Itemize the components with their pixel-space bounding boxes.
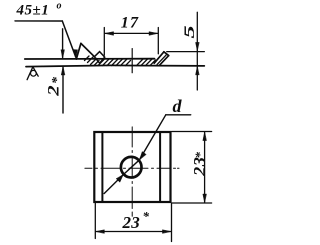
dim 2* text (rotated)	[45, 76, 65, 97]
dim 2*: lower arrowhead (up)	[61, 66, 65, 75]
dim 2*: upper arrow line	[62, 29, 64, 58]
label d underline	[166, 114, 191, 116]
svg-text:d: d	[173, 96, 183, 116]
dim 23* right: bottom extension line	[172, 202, 212, 204]
hatching in left tab base	[85, 56, 100, 66]
right bent tab: lower-right edge	[159, 56, 169, 66]
dim 23* bottom: left extension line	[94, 203, 96, 239]
surface roughness symbol (no material removal) on bottom face	[27, 67, 38, 80]
vertical centerline	[131, 127, 133, 216]
dim 17: dimension line	[105, 32, 158, 34]
dim 5 text (rotated)	[180, 25, 197, 39]
dim 5: upper arrowhead (down onto tab-top line)	[196, 42, 200, 51]
left bent tab: left edge	[76, 43, 81, 59]
dim 23* right: dimension line	[204, 132, 206, 203]
svg-text:17: 17	[121, 14, 139, 31]
hatching of flat middle section (right of center)	[137, 59, 156, 66]
horizontal centerline	[85, 167, 179, 169]
right bent tab: end face	[164, 52, 169, 56]
tab-top extension line (right, for dim 5)	[167, 51, 205, 53]
dim 17 text	[121, 14, 139, 31]
svg-text:*: *	[143, 209, 150, 224]
dim 23* bottom: right extension line	[171, 204, 173, 242]
svg-text:23: 23	[190, 156, 209, 177]
svg-text:5: 5	[180, 25, 197, 39]
right bent tab: inner hatch stroke	[157, 55, 166, 65]
hole circle d	[121, 157, 142, 178]
dim 17: right arrowhead	[149, 32, 158, 36]
leader d: lower arrowhead (at circle bottom-left edge)	[116, 175, 123, 183]
dim 5: lower arrowhead (up onto bottom line)	[196, 66, 200, 75]
svg-text:45±1: 45±1	[16, 3, 50, 19]
svg-text:o: o	[57, 1, 62, 12]
dim 23* bottom: left arrowhead	[96, 230, 105, 234]
dim 23* bottom: dimension line	[96, 231, 172, 233]
leader arrowhead	[73, 50, 77, 59]
svg-text:*: *	[50, 76, 65, 84]
dim 2*: lower arrow line	[62, 67, 64, 113]
dim 23* right: top arrowhead	[203, 132, 207, 141]
dim 2*: upper arrowhead (down)	[61, 50, 65, 59]
dim 17: left extension line	[103, 28, 105, 56]
svg-text:2: 2	[45, 85, 63, 97]
right bend line	[159, 132, 161, 202]
leader d: line through hole	[104, 115, 166, 194]
svg-text:23: 23	[122, 213, 141, 232]
label d text	[173, 96, 183, 116]
dim 23* right text (rotated)	[190, 152, 209, 178]
hatching of flat middle section (left of center)	[98, 59, 131, 66]
top surface line of plate	[25, 58, 155, 60]
section centre mark (vertical line)	[131, 49, 133, 73]
leader line from 45±1° to chamfer	[62, 21, 75, 57]
left bent tab: end-face diamond	[94, 52, 104, 64]
right bent tab: upper-left edge	[154, 52, 164, 63]
dim 23* bottom: right arrowhead	[162, 230, 171, 234]
left bent tab: 45 deg slope	[81, 43, 95, 56]
dim 17: right extension line	[157, 28, 159, 54]
svg-text:*: *	[192, 152, 207, 159]
dim 23* bottom text	[122, 209, 150, 232]
dim 17: left arrowhead	[105, 32, 114, 36]
label 45±1° text	[16, 1, 62, 19]
left bend line	[101, 132, 103, 202]
bottom surface line of plate (also extension line for dim 5)	[26, 65, 204, 66]
dim 23* right: top extension line	[172, 131, 212, 133]
label 45±1° underline	[15, 20, 62, 22]
leader d: upper arrowhead (at circle top-right edge)	[139, 152, 146, 160]
dim 23* right: bottom arrowhead	[203, 194, 207, 203]
dim 5: dimension line	[196, 12, 198, 90]
plate outline	[94, 132, 170, 202]
